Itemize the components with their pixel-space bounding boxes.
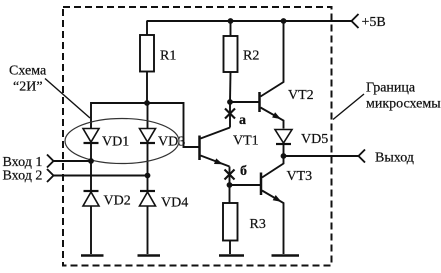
ground (R3) [219, 254, 244, 257]
ground (VD4) [138, 254, 161, 257]
svg-text:VT2: VT2 [288, 88, 314, 103]
node: junction dot R1/VD3 anode [144, 100, 150, 106]
node b: cross mark [225, 164, 248, 180]
ellipse "2I" grouping [65, 119, 179, 164]
svg-text:R2: R2 [243, 49, 259, 64]
wire output line [284, 155, 359, 157]
node: junction dot b [227, 182, 233, 188]
node: junction dot rail-VT2 collector [281, 18, 287, 24]
node a: cross mark [225, 109, 246, 129]
svg-text:Граница: Граница [366, 81, 416, 96]
diode VD1 [83, 129, 129, 192]
resistor R2 [224, 21, 260, 102]
diode VD5 [275, 130, 328, 157]
wire node b to VT3 base [230, 184, 261, 186]
svg-text:VD1: VD1 [102, 135, 129, 150]
transistor VT1 [200, 128, 259, 167]
wire VT1 emitter to node b [229, 167, 231, 186]
input 2 terminal [3, 169, 54, 184]
svg-text:R1: R1 [160, 49, 176, 64]
svg-text:VD4: VD4 [161, 196, 188, 211]
svg-text:VT1: VT1 [233, 134, 259, 149]
node: junction dot input1/VD1/VD2 [88, 158, 94, 164]
svg-text:Вход 2: Вход 2 [3, 169, 43, 184]
wire node a to VT2 base [230, 101, 259, 103]
wire input 2 [54, 175, 148, 177]
resistor R1 [140, 21, 176, 103]
svg-text:VD2: VD2 [104, 194, 131, 209]
wire anode box (R1 bottom to VD1/VD3 anodes and VT1 base) [91, 103, 199, 147]
input 1 terminal [3, 155, 54, 171]
label Schema "2I" with pointer [9, 64, 90, 119]
transistor VT2 [260, 21, 314, 129]
svg-text:Схема: Схема [9, 64, 47, 79]
wire VT1 collector to node a [229, 102, 231, 128]
wire +5V rail [147, 20, 352, 22]
ground (VT3 emitter) [272, 254, 300, 257]
resistor R3 [223, 185, 266, 254]
svg-text:Выход: Выход [375, 151, 414, 166]
svg-text:б: б [240, 164, 247, 179]
svg-text:микросхемы: микросхемы [366, 97, 441, 112]
ground (VD2) [81, 254, 104, 257]
label boundary of microchip with pointer [333, 81, 441, 120]
terminal +5V [352, 14, 386, 30]
node: junction dot input2/VD3/VD4 [145, 173, 151, 179]
transistor VT3 [261, 156, 312, 254]
node: junction dot rail-R2 [228, 18, 234, 24]
wire input 1 [54, 160, 92, 162]
svg-text:VD3: VD3 [158, 135, 185, 150]
node: junction dot VD5/output/VT3 collector [281, 153, 287, 159]
svg-text:R3: R3 [250, 217, 266, 232]
diode VD4 [140, 191, 189, 254]
node: junction dot a [227, 99, 233, 105]
diode VD2 [83, 191, 131, 254]
svg-text:а: а [239, 113, 246, 128]
terminal output [359, 150, 414, 166]
svg-text:VT3: VT3 [287, 169, 313, 184]
diode VD3 [140, 129, 186, 192]
svg-text:+5В: +5В [362, 15, 386, 30]
microchip boundary (dashed rectangle) [63, 7, 332, 266]
svg-text:“2И”: “2И” [13, 80, 43, 95]
svg-text:VD5: VD5 [301, 132, 328, 147]
